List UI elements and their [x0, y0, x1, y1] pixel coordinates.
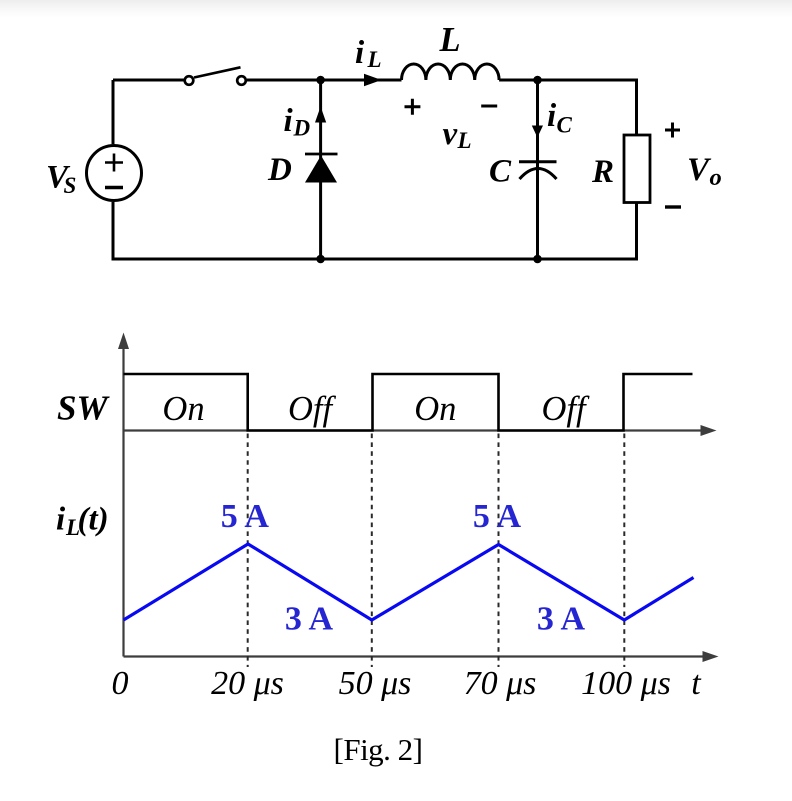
svg-text:i: i	[56, 501, 66, 537]
svg-text:[Fig. 2]: [Fig. 2]	[334, 732, 423, 767]
svg-text:5 A: 5 A	[221, 498, 270, 535]
svg-text:50 μs: 50 μs	[339, 665, 412, 702]
svg-text:D: D	[267, 152, 292, 188]
svg-text:D: D	[293, 116, 311, 141]
svg-text:i: i	[547, 98, 557, 134]
svg-text:C: C	[489, 154, 512, 190]
svg-text:3 A: 3 A	[285, 601, 334, 638]
svg-text:Off: Off	[288, 390, 337, 428]
svg-text:t: t	[691, 665, 702, 702]
svg-text:L: L	[457, 128, 472, 153]
svg-text:20 μs: 20 μs	[211, 665, 284, 702]
svg-text:i: i	[355, 35, 365, 71]
svg-text:0: 0	[112, 665, 129, 702]
svg-text:R: R	[591, 154, 614, 190]
svg-text:3 A: 3 A	[537, 601, 586, 638]
svg-text:5 A: 5 A	[473, 498, 522, 535]
svg-text:V: V	[687, 152, 712, 188]
svg-text:Off: Off	[541, 390, 590, 428]
svg-text:S: S	[64, 173, 77, 198]
svg-text:On: On	[414, 390, 456, 428]
svg-text:v: v	[443, 116, 458, 152]
svg-text:(t): (t)	[78, 501, 109, 537]
svg-text:On: On	[162, 390, 204, 428]
svg-text:o: o	[710, 164, 722, 191]
svg-text:C: C	[557, 112, 573, 137]
svg-text:100 μs: 100 μs	[581, 665, 671, 702]
svg-text:i: i	[284, 103, 294, 139]
svg-text:L: L	[439, 21, 461, 59]
svg-text:SW: SW	[57, 389, 110, 428]
svg-text:L: L	[367, 47, 382, 72]
svg-text:70 μs: 70 μs	[464, 665, 537, 702]
